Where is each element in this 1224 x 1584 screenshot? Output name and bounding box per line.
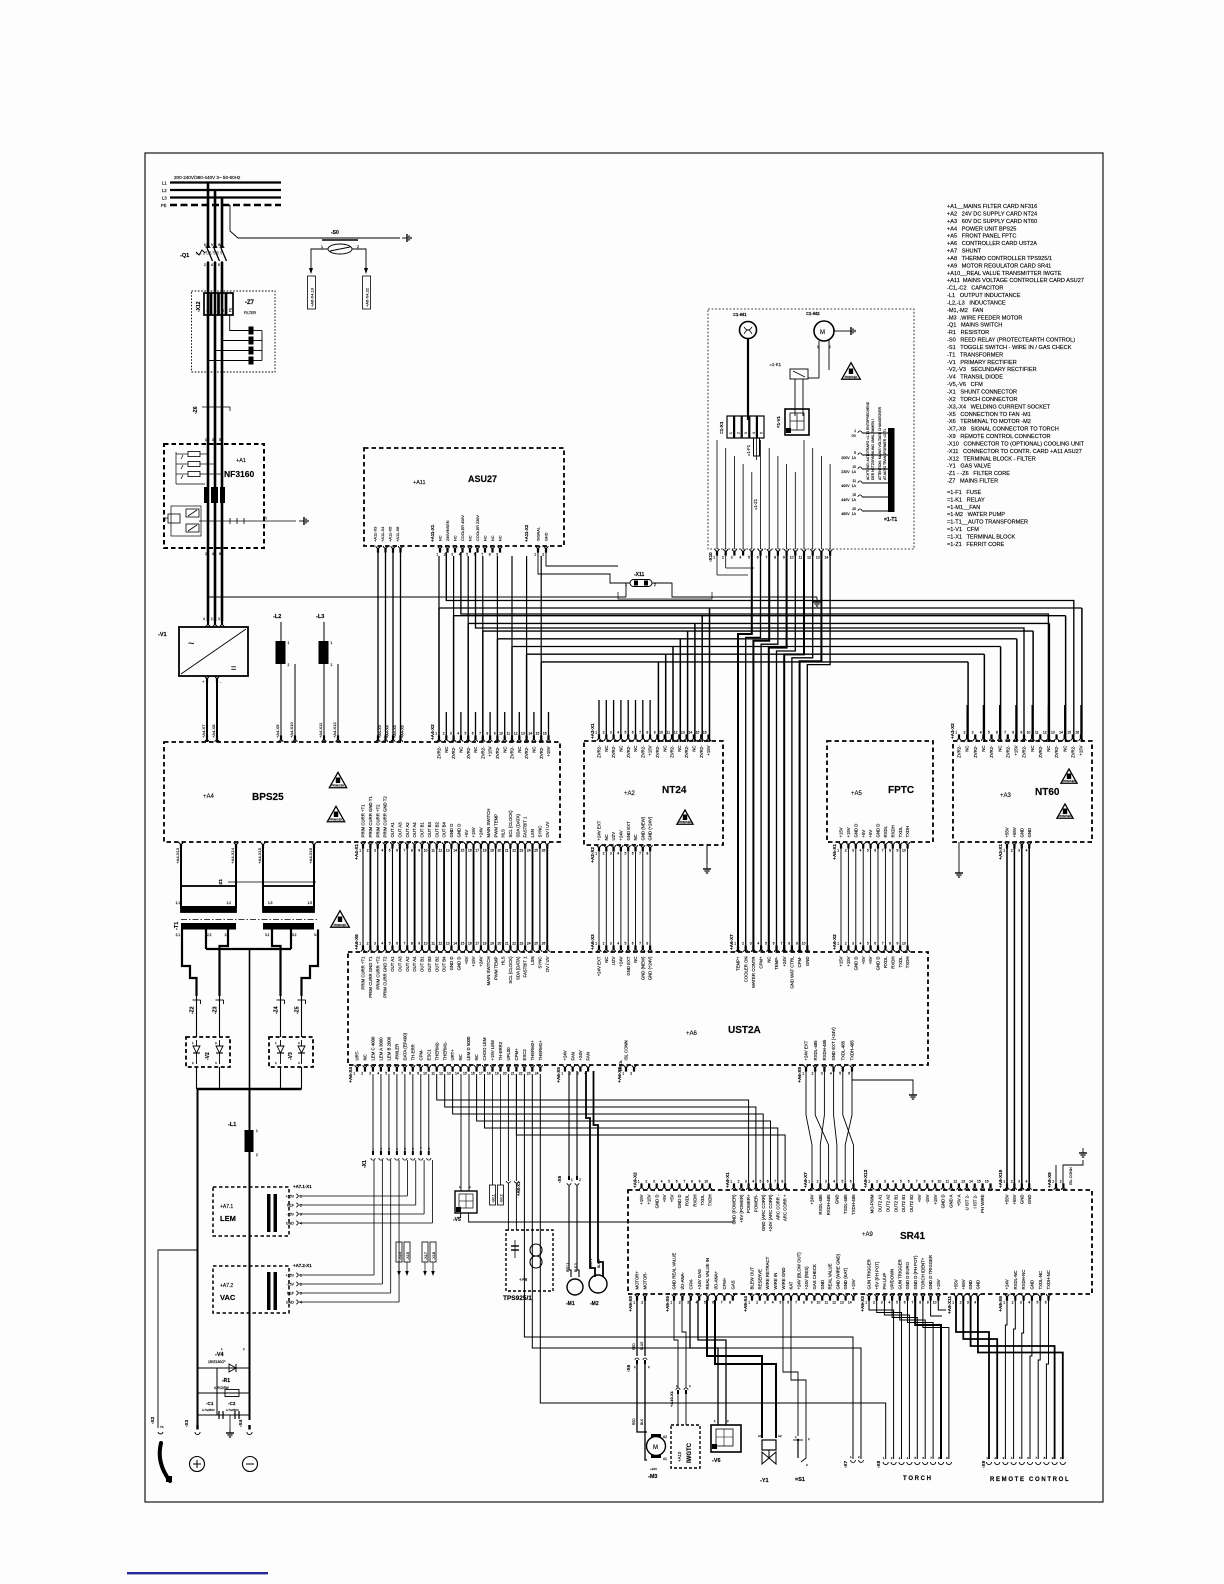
svg-text:IWGTC: IWGTC (687, 1442, 693, 1463)
svg-text:19: 19 (495, 1072, 499, 1076)
svg-text:4: 4 (833, 1179, 835, 1183)
svg-text:10: 10 (902, 849, 906, 853)
svg-text:+24V: +24V (782, 956, 787, 966)
svg-text:13: 13 (816, 556, 820, 560)
svg-text:1: 1 (837, 941, 839, 945)
svg-text:+A10-X1: +A10-X1 (669, 1390, 674, 1407)
svg-text:3: 3 (300, 1292, 302, 1296)
svg-text:16: 16 (985, 1179, 989, 1183)
svg-text:GND: GND (805, 957, 810, 967)
svg-text:1: 1 (321, 245, 323, 249)
svg-text:=1-T1: =1-T1 (884, 517, 897, 523)
svg-text:2: 2 (738, 1179, 740, 1183)
svg-text:+A6-X6: +A6-X6 (354, 934, 359, 950)
svg-text:PRIM/SEK: PRIM/SEK (332, 784, 345, 788)
svg-text:OUT A2: OUT A2 (405, 956, 410, 972)
svg-text:+15V: +15V (546, 746, 551, 756)
svg-text:=1-V1: =1-V1 (776, 416, 781, 428)
svg-text:23: 23 (520, 941, 524, 945)
svg-text:GND (POWER): GND (POWER) (732, 1194, 737, 1224)
svg-text:-Z1: -Z1 (218, 879, 223, 886)
svg-text:-V6: -V6 (712, 1458, 721, 1464)
svg-text:-V1: -V1 (158, 632, 167, 638)
svg-text:SCL (CLOCK): SCL (CLOCK) (508, 956, 513, 984)
svg-text:2: 2 (361, 1072, 363, 1076)
svg-text:+A11-X4: +A11-X4 (380, 526, 385, 542)
svg-text:15KE180CP: 15KE180CP (208, 1360, 226, 1364)
svg-text:-X3: -X3 (184, 1419, 189, 1427)
svg-text:2: 2 (603, 852, 605, 856)
svg-text:GND (+24V): GND (+24V) (648, 956, 653, 980)
svg-text:+24V: +24V (479, 827, 484, 837)
svg-text:TXDH: TXDH (905, 957, 910, 969)
svg-text:13: 13 (521, 731, 525, 735)
svg-text:+A4-X12: +A4-X12 (332, 722, 337, 738)
svg-text:2: 2 (876, 1179, 878, 1183)
svg-text:230V/NSEN: 230V/NSEN (446, 520, 450, 541)
svg-text:OUT B3: OUT B3 (427, 956, 432, 972)
svg-text:+A6-X3: +A6-X3 (590, 934, 595, 950)
svg-text:17: 17 (475, 941, 479, 945)
svg-text:-L3: -L3 (316, 614, 324, 620)
svg-text:NC: NC (662, 746, 667, 752)
svg-text:16: 16 (468, 941, 472, 945)
svg-text:4: 4 (381, 941, 383, 945)
svg-text:1: 1 (359, 941, 361, 945)
svg-text:8: 8 (919, 1301, 921, 1305)
svg-text:GUN TRIGGER: GUN TRIGGER (897, 1259, 902, 1289)
svg-text:4: 4 (457, 731, 459, 735)
svg-text:+24V: +24V (563, 1050, 568, 1060)
svg-text:3: 3 (967, 1301, 969, 1305)
svg-text:RXDH-NC: RXDH-NC (1021, 1270, 1026, 1290)
svg-text:R E M O T E C O N T R O L: R E M O T E C O N T R O L (990, 1477, 1069, 1483)
svg-text:15: 15 (536, 731, 540, 735)
svg-text:1: 1 (288, 641, 290, 645)
svg-text:DER NETZSPANNUNG UMKLEMMEN !: DER NETZSPANNUNG UMKLEMMEN ! (871, 419, 875, 480)
svg-text:4.7n/250V: 4.7n/250V (202, 1408, 215, 1412)
svg-text:+15V: +15V (1079, 745, 1084, 755)
svg-text:NT24: NT24 (662, 785, 687, 796)
svg-text:GND REAL VALUE: GND REAL VALUE (672, 1253, 677, 1290)
svg-text:ZVR2-: ZVR2- (670, 745, 675, 758)
svg-text:1: 1 (865, 1301, 867, 1305)
svg-text:UPL00: UPL00 (506, 1047, 511, 1061)
svg-text:4: 4 (1026, 849, 1028, 853)
svg-text:+A6-X2: +A6-X2 (832, 934, 837, 950)
svg-text:=1-K1 RELAY: =1-K1 RELAY (947, 497, 985, 503)
svg-text:200V 1A: 200V 1A (841, 456, 856, 460)
svg-text:UP/DOWN: UP/DOWN (890, 1269, 895, 1290)
svg-text:9: 9 (811, 1301, 813, 1305)
svg-text:-Z5: -Z5 (295, 1006, 301, 1014)
svg-text:PH WIRE: PH WIRE (980, 1194, 985, 1213)
svg-text:1: 1 (300, 1195, 302, 1199)
svg-text:NC: NC (474, 1054, 479, 1060)
svg-text:+5V: +5V (464, 956, 469, 964)
svg-text:+55V: +55V (954, 1279, 959, 1289)
svg-text:-X6 TERMINAL TO MOTOR -M2: -X6 TERMINAL TO MOTOR -M2 (947, 419, 1031, 425)
svg-text:14: 14 (688, 730, 692, 734)
svg-text:+A4-X14: +A4-X14 (230, 847, 235, 863)
svg-text:LEM D 5000: LEM D 5000 (466, 1036, 471, 1060)
svg-text:23: 23 (527, 1072, 531, 1076)
svg-text:OUT A4: OUT A4 (412, 956, 417, 972)
svg-text:-X4: -X4 (238, 1419, 243, 1427)
svg-text:RXDH: RXDH (890, 957, 895, 969)
svg-text:1: 1 (802, 1072, 804, 1076)
svg-text:OUT A1: OUT A1 (390, 956, 395, 972)
svg-text:2: 2 (367, 849, 369, 853)
svg-text:+15V: +15V (846, 956, 851, 966)
svg-text:UZV: UZV (611, 832, 616, 841)
svg-text:PRIM/SEK: PRIM/SEK (679, 820, 692, 824)
svg-text:GND (ARC CORR): GND (ARC CORR) (761, 1194, 766, 1231)
svg-text:3: 3 (972, 730, 974, 734)
svg-text:10: 10 (938, 1179, 942, 1183)
svg-text:LEM C 4000: LEM C 4000 (371, 1036, 376, 1060)
svg-text:0V: 0V (852, 434, 857, 438)
svg-text:5: 5 (389, 849, 391, 853)
svg-text:ARC CORR -: ARC CORR - (775, 1194, 780, 1220)
svg-text:NC: NC (692, 746, 697, 752)
svg-text:RXDH-485: RXDH-485 (826, 1194, 831, 1215)
svg-text:4: 4 (696, 1301, 698, 1305)
svg-text:11: 11 (431, 941, 435, 945)
svg-text:M: M (653, 1445, 658, 1451)
svg-text:-Q1 MAINS SWITCH: -Q1 MAINS SWITCH (947, 323, 1002, 329)
svg-text:5: 5 (625, 941, 627, 945)
svg-text:4: 4 (617, 852, 619, 856)
svg-text:-X14: -X14 (398, 1252, 402, 1260)
svg-text:11: 11 (507, 731, 511, 735)
svg-text:1: 1 (1003, 1301, 1005, 1305)
svg-text:19: 19 (490, 849, 494, 853)
svg-text:+A2-X1: +A2-X1 (590, 723, 595, 739)
svg-text:19: 19 (490, 941, 494, 945)
svg-text:4: 4 (300, 1222, 302, 1226)
svg-text:-V3: -V3 (288, 1052, 294, 1060)
svg-text:GND EXT: GND EXT (626, 956, 631, 975)
svg-text:ZVR2-: ZVR2- (437, 746, 442, 759)
svg-text:7: 7 (882, 941, 884, 945)
svg-text:+A6-X4: +A6-X4 (348, 1067, 353, 1083)
svg-text:GAS CHECK: GAS CHECK (812, 1264, 817, 1289)
svg-text:9: 9 (418, 941, 420, 945)
svg-text:OUT A3: OUT A3 (397, 822, 402, 838)
svg-text:11: 11 (431, 1072, 435, 1076)
svg-text:GND D: GND D (876, 824, 881, 838)
svg-text:+15V: +15V (647, 1194, 652, 1204)
svg-text:-L2: -L2 (273, 614, 281, 620)
svg-text:1.2: 1.2 (227, 901, 232, 905)
svg-text:NC: NC (473, 747, 478, 753)
svg-text:5: 5 (668, 1179, 670, 1183)
svg-text:-RWLER: -RWLER (394, 1044, 399, 1061)
svg-text:26POL: 26POL (619, 1060, 623, 1071)
svg-text:NC: NC (459, 747, 464, 753)
svg-text:ZVR2-: ZVR2- (699, 745, 704, 758)
svg-text:9: 9 (927, 1301, 929, 1305)
svg-text:1: 1 (734, 941, 736, 945)
svg-text:5: 5 (842, 1179, 844, 1183)
svg-text:+A4-X10: +A4-X10 (289, 722, 294, 738)
svg-text:440V 1A: 440V 1A (841, 498, 856, 502)
svg-text:I/O-ANA-: I/O-ANA- (680, 1272, 685, 1290)
svg-text:5: 5 (780, 1301, 782, 1305)
svg-text:4: 4 (752, 432, 756, 434)
svg-text:3: 3 (745, 1179, 747, 1183)
svg-text:=1-F1 FUSE: =1-F1 FUSE (947, 490, 982, 496)
svg-text:+5V: +5V (868, 956, 873, 964)
svg-text:6: 6 (676, 1179, 678, 1183)
svg-text:2: 2 (845, 849, 847, 853)
svg-text:PRIM/SEK: PRIM/SEK (845, 375, 858, 379)
svg-text:1: 1 (265, 516, 267, 520)
svg-text:1: 1 (748, 1301, 750, 1305)
svg-text:-C1,-C2 CAPACITOR: -C1,-C2 CAPACITOR (947, 286, 1003, 292)
svg-text:+A7.1: +A7.1 (220, 1204, 233, 1210)
svg-text:+A11: +A11 (413, 480, 426, 486)
svg-text:I/O-ANA+: I/O-ANA+ (714, 1271, 719, 1290)
svg-text:A1: A1 (663, 1457, 667, 1461)
svg-text:11: 11 (431, 849, 435, 853)
svg-text:10: 10 (423, 1072, 427, 1076)
svg-text:7: 7 (401, 1072, 403, 1076)
svg-text:REF: REF (287, 1292, 295, 1296)
svg-text:9: 9 (897, 849, 899, 853)
svg-text:LSN: LSN (530, 829, 535, 837)
svg-text:5: 5 (854, 451, 856, 455)
svg-text:GND (KAT): GND (KAT) (843, 1267, 848, 1289)
svg-text:2: 2 (722, 556, 724, 560)
svg-text:+A9-X7: +A9-X7 (803, 1172, 808, 1188)
svg-text:15: 15 (461, 849, 465, 853)
svg-text:3.1: 3.1 (265, 933, 270, 937)
svg-text:ZVR2-: ZVR2- (684, 745, 689, 758)
svg-text:ZVR2-: ZVR2- (480, 746, 485, 759)
svg-text:GND D: GND D (449, 957, 454, 971)
svg-text:6: 6 (787, 1301, 789, 1305)
svg-text:-X1 SHUNT CONNECTOR: -X1 SHUNT CONNECTOR (947, 390, 1017, 396)
svg-text:RESERVE: RESERVE (757, 1269, 762, 1290)
svg-text:9: 9 (932, 1179, 934, 1183)
svg-text:-L1 OUTPUT INDUCTANCE: -L1 OUTPUT INDUCTANCE (947, 293, 1021, 299)
svg-text:BLK: BLK (640, 1418, 644, 1425)
svg-text:W: W (218, 243, 221, 247)
svg-text:ZVR2-: ZVR2- (655, 745, 660, 758)
svg-text:-S0: -S0 (331, 230, 339, 236)
svg-text:ESC1: ESC1 (426, 1049, 431, 1061)
svg-text:+A9-X2: +A9-X2 (633, 1172, 638, 1188)
svg-text:11: 11 (946, 1179, 950, 1183)
svg-text:NC: NC (965, 746, 970, 752)
svg-text:OUT B3: OUT B3 (427, 821, 432, 837)
svg-text:L1: L1 (162, 180, 167, 185)
svg-text:2: 2 (1060, 1179, 1062, 1183)
svg-text:5: 5 (867, 849, 869, 853)
svg-text:TEMP-: TEMP- (774, 956, 779, 970)
svg-text:OV / UV: OV / UV (545, 822, 550, 838)
svg-text:BPS25: BPS25 (252, 792, 284, 803)
svg-text:+A7.2-X1: +A7.2-X1 (293, 1263, 312, 1268)
svg-text:PE: PE (229, 308, 233, 312)
svg-text:+5V: +5V (861, 956, 866, 964)
svg-text:-X2: -X2 (150, 1416, 155, 1424)
svg-text:RXDL-485: RXDL-485 (813, 1040, 818, 1061)
svg-text:9: 9 (418, 849, 420, 853)
svg-text:14: 14 (528, 731, 532, 735)
svg-text:+A11-X3: +A11-X3 (373, 526, 378, 542)
svg-text:14: 14 (455, 1072, 459, 1076)
svg-text:GND: GND (286, 1222, 294, 1226)
svg-text:12: 12 (807, 556, 811, 560)
svg-text:3: 3 (825, 1179, 827, 1183)
svg-text:2: 2 (331, 663, 333, 667)
svg-text:4: 4 (757, 941, 759, 945)
svg-text:4: 4 (211, 263, 213, 267)
svg-text:-T1: -T1 (174, 922, 180, 930)
svg-text:2: 2 (444, 553, 446, 557)
svg-text:2: 2 (1011, 1179, 1013, 1183)
svg-text:RXDH: RXDH (890, 825, 895, 837)
svg-text:25: 25 (534, 941, 538, 945)
svg-text:2.2: 2.2 (207, 933, 212, 937)
svg-text:OUT B4: OUT B4 (442, 821, 447, 837)
svg-text:ZVR2-: ZVR2- (466, 746, 471, 759)
svg-text:12: 12 (1043, 730, 1047, 734)
svg-text:FPTC: FPTC (888, 785, 914, 796)
svg-text:-V2: -V2 (205, 1052, 211, 1060)
svg-text:11: 11 (825, 1301, 829, 1305)
svg-text:-X7,-X8 SIGNAL CONNECTOR TO: -X7,-X8 SIGNAL CONNECTOR TO TORCH (947, 427, 1059, 433)
svg-text:+A9-X3: +A9-X3 (860, 1296, 865, 1312)
svg-text:400V 1A: 400V 1A (841, 484, 856, 488)
svg-text:+24V (ARC CORR): +24V (ARC CORR) (768, 1194, 773, 1232)
svg-text:3: 3 (764, 1301, 766, 1305)
svg-text:6: 6 (632, 730, 634, 734)
svg-text:+24V: +24V (479, 956, 484, 966)
svg-text:OUT B1: OUT B1 (420, 821, 425, 837)
svg-text:+A9-X6: +A9-X6 (998, 1296, 1003, 1312)
svg-text:7: 7 (639, 941, 641, 945)
svg-text:CFM-: CFM- (688, 1278, 693, 1289)
svg-text:7: 7 (912, 1301, 914, 1305)
svg-text:6: 6 (908, 1179, 910, 1183)
svg-text:-X15: -X15 (406, 1252, 410, 1260)
svg-text:3: 3 (750, 941, 752, 945)
svg-text:5: 5 (760, 1179, 762, 1183)
svg-text:SR41: SR41 (900, 1231, 925, 1242)
svg-text:10: 10 (902, 941, 906, 945)
svg-text:24: 24 (527, 849, 531, 853)
svg-text:PRIM CURR +T2: PRIM CURR +T2 (375, 956, 380, 990)
svg-text:NC: NC (499, 535, 503, 541)
svg-text:10: 10 (852, 465, 856, 469)
svg-text:1: 1 (595, 941, 597, 945)
svg-text:2: 2 (742, 941, 744, 945)
svg-text:WIRE IN: WIRE IN (773, 1273, 778, 1290)
svg-text:20: 20 (497, 941, 501, 945)
svg-text:+A6-X7: +A6-X7 (729, 934, 734, 950)
svg-text:+5V: +5V (662, 1194, 667, 1202)
svg-text:+55V: +55V (961, 1279, 966, 1289)
svg-text:1: 1 (952, 1301, 954, 1305)
svg-text:3: 3 (653, 1179, 655, 1183)
svg-text:=1-M2 WATER PUMP: =1-M2 WATER PUMP (947, 512, 1005, 518)
svg-text:7: 7 (882, 849, 884, 853)
svg-text:PRIM CURR +T2: PRIM CURR +T2 (375, 804, 380, 838)
svg-text:+A4-X8: +A4-X8 (211, 724, 216, 738)
svg-text:+15V: +15V (648, 745, 653, 755)
svg-text:WIRE GND: WIRE GND (781, 1268, 786, 1290)
svg-text:+A6 CONTROLLER CARD UST2A: +A6 CONTROLLER CARD UST2A (947, 241, 1037, 247)
svg-text:GND (NEW): GND (NEW) (640, 816, 645, 840)
svg-text:+24V EXT: +24V EXT (597, 820, 602, 840)
svg-text:+24V EXT: +24V EXT (804, 1040, 809, 1060)
svg-text:4: 4 (377, 1072, 379, 1076)
svg-text:-Z7 MAINS FILTER: -Z7 MAINS FILTER (947, 479, 998, 485)
svg-text:+A4-X9: +A4-X9 (275, 724, 280, 738)
svg-text:OUT A4: OUT A4 (412, 822, 417, 838)
svg-text:22: 22 (512, 849, 516, 853)
svg-text:7A: 7A (160, 1425, 164, 1429)
svg-text:1.1: 1.1 (176, 901, 181, 905)
svg-text:TEMP+: TEMP+ (736, 956, 741, 971)
svg-text:2: 2 (960, 1301, 962, 1305)
svg-text:URT-: URT- (355, 1050, 360, 1061)
svg-text:=: = (231, 663, 236, 673)
svg-text:6: 6 (850, 1179, 852, 1183)
svg-text:NC: NC (532, 747, 537, 753)
svg-text:GND EXT: GND EXT (626, 821, 631, 840)
svg-text:TXDL: TXDL (898, 826, 903, 838)
svg-text:NC: NC (604, 957, 609, 963)
svg-text:THERM1-: THERM1- (442, 1041, 447, 1061)
svg-text:1: 1 (436, 553, 438, 557)
svg-text:NC: NC (1030, 746, 1035, 752)
svg-text:18: 18 (483, 941, 487, 945)
svg-text:NF3160: NF3160 (224, 469, 255, 479)
svg-text:3: 3 (610, 852, 612, 856)
svg-text:+15V: +15V (851, 1279, 856, 1289)
svg-text:+15V: +15V (936, 1279, 941, 1289)
svg-text:16: 16 (543, 731, 547, 735)
svg-text:DATA (EP400): DATA (EP400) (402, 1032, 407, 1060)
svg-text:NC: NC (997, 746, 1002, 752)
svg-text:ZVR2-: ZVR2- (626, 745, 631, 758)
svg-text:6: 6 (848, 1072, 850, 1076)
svg-text:GND: GND (968, 1280, 973, 1290)
svg-text:1: 1 (730, 1179, 732, 1183)
svg-text:9: 9 (654, 730, 656, 734)
svg-text:+5V (PH POT): +5V (PH POT) (874, 1261, 879, 1289)
svg-text:+A11-X2: +A11-X2 (524, 524, 529, 542)
svg-text:2: 2 (367, 941, 369, 945)
svg-text:1: 1 (1003, 1179, 1005, 1183)
svg-text:3: 3 (450, 731, 452, 735)
svg-text:T O R C H: T O R C H (903, 1476, 931, 1482)
svg-text:13: 13 (1051, 730, 1055, 734)
svg-text:-S0 REED RELAY (PROTECTEARTH: -S0 REED RELAY (PROTECTEARTH CONTROL) (947, 338, 1075, 344)
svg-text:+A3-X2: +A3-X2 (950, 723, 955, 739)
svg-text:PH L/UP: PH L/UP (882, 1273, 887, 1290)
svg-text:2: 2 (737, 432, 741, 434)
svg-text:PWM TEMP: PWM TEMP (493, 814, 498, 838)
svg-text:=1-V1 CFM: =1-V1 CFM (947, 527, 979, 533)
svg-text:3: 3 (369, 1072, 371, 1076)
svg-text:GND (+24V): GND (+24V) (648, 816, 653, 840)
